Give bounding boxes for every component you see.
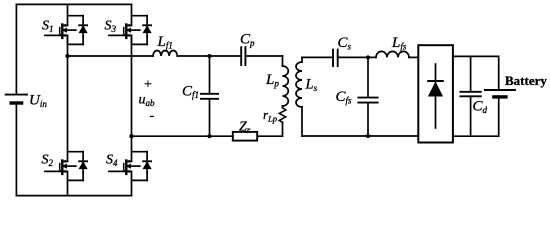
inductor Lfs bbox=[376, 51, 409, 57]
wire: rectifier output bottom bbox=[453, 135, 499, 137]
node b junction bbox=[129, 134, 133, 138]
svg-text:Cfs: Cfs bbox=[336, 89, 353, 106]
wire: left leg upper (rail to S1 drain) bbox=[67, 4, 69, 25]
svg-text:Lf1: Lf1 bbox=[157, 34, 173, 51]
svg-text:Zr: Zr bbox=[239, 120, 251, 136]
svg-text:Cf1: Cf1 bbox=[182, 84, 199, 101]
transistor S4 bbox=[109, 152, 151, 181]
wire: Lfs to rectifier bbox=[409, 56, 418, 58]
wire: rectifier output top bbox=[453, 55, 499, 57]
svg-text:Lp: Lp bbox=[265, 72, 279, 89]
wire: bottom rail bbox=[16, 195, 131, 197]
wire: left leg middle (node a) bbox=[67, 35, 69, 161]
junction: Cf1 bottom bbox=[208, 134, 212, 138]
inductor Ls (transformer secondary) bbox=[296, 57, 302, 136]
svg-text:S2: S2 bbox=[42, 153, 54, 169]
svg-text:Cp: Cp bbox=[240, 32, 255, 49]
capacitor Cs bbox=[333, 50, 338, 67]
transistor S1 bbox=[45, 16, 87, 45]
wire: left leg lower (S2 to bottom rail) bbox=[67, 180, 69, 195]
junction: Cfs top bbox=[366, 55, 370, 59]
inductor Lp bbox=[283, 66, 289, 106]
battery (output) bbox=[485, 56, 515, 136]
svg-text:S1: S1 bbox=[42, 19, 54, 35]
wire: Zr to node b bbox=[132, 135, 233, 137]
wire: right leg middle (node b) bbox=[131, 35, 133, 161]
junction: Cfs bottom bbox=[366, 134, 370, 138]
resistor rLp bbox=[279, 108, 286, 123]
capacitor Cd bbox=[460, 56, 480, 136]
diode D (rectifier) bbox=[428, 64, 443, 128]
node a junction bbox=[65, 54, 69, 58]
wire: left rail upper bbox=[15, 4, 17, 93]
wire: Lf1 to Cp bbox=[177, 55, 241, 57]
capacitor Cp bbox=[241, 47, 245, 65]
wire: rLp to Zr bbox=[257, 122, 282, 136]
svg-text:Cd: Cd bbox=[473, 99, 488, 116]
wire: right leg upper (rail to S3 drain) bbox=[131, 4, 133, 25]
wire: left rail lower bbox=[15, 104, 17, 195]
svg-text:Battery: Battery bbox=[505, 73, 547, 88]
battery Uin bbox=[6, 95, 27, 103]
junction: Cf1 top bbox=[208, 54, 212, 58]
wire: Cp to Lp branch bbox=[245, 55, 282, 57]
wire: node a to Lf1 bbox=[68, 55, 154, 57]
resistor Zr bbox=[233, 132, 257, 141]
transistor S2 bbox=[45, 152, 87, 181]
svg-text:+: + bbox=[144, 78, 152, 93]
svg-text:uab: uab bbox=[139, 93, 156, 109]
svg-text:rLp: rLp bbox=[263, 107, 277, 124]
wire: Ls top to Cs bbox=[302, 56, 333, 58]
wire: Lp branch top bbox=[282, 56, 284, 66]
svg-text:Lfs: Lfs bbox=[391, 35, 407, 52]
wire: right leg lower (S4 to bottom rail) bbox=[131, 180, 133, 195]
svg-text:Uin: Uin bbox=[29, 93, 47, 110]
svg-text:S4: S4 bbox=[106, 153, 118, 169]
svg-text:S3: S3 bbox=[105, 19, 117, 35]
wire: Lp to rLp bbox=[282, 106, 284, 108]
capacitor Cf1 bbox=[201, 56, 218, 136]
rectifier bridge box bbox=[418, 45, 453, 142]
svg-text:-: - bbox=[150, 109, 155, 124]
transistor S3 bbox=[109, 16, 151, 45]
wire: Cs to Lfs bbox=[338, 56, 376, 58]
wire: top rail bbox=[16, 3, 131, 5]
inductor Lf1 bbox=[153, 50, 177, 56]
svg-text:Ls: Ls bbox=[305, 77, 318, 94]
svg-text:Cs: Cs bbox=[338, 35, 352, 52]
capacitor Cfs bbox=[358, 57, 377, 136]
wire: secondary bottom bbox=[302, 135, 418, 137]
